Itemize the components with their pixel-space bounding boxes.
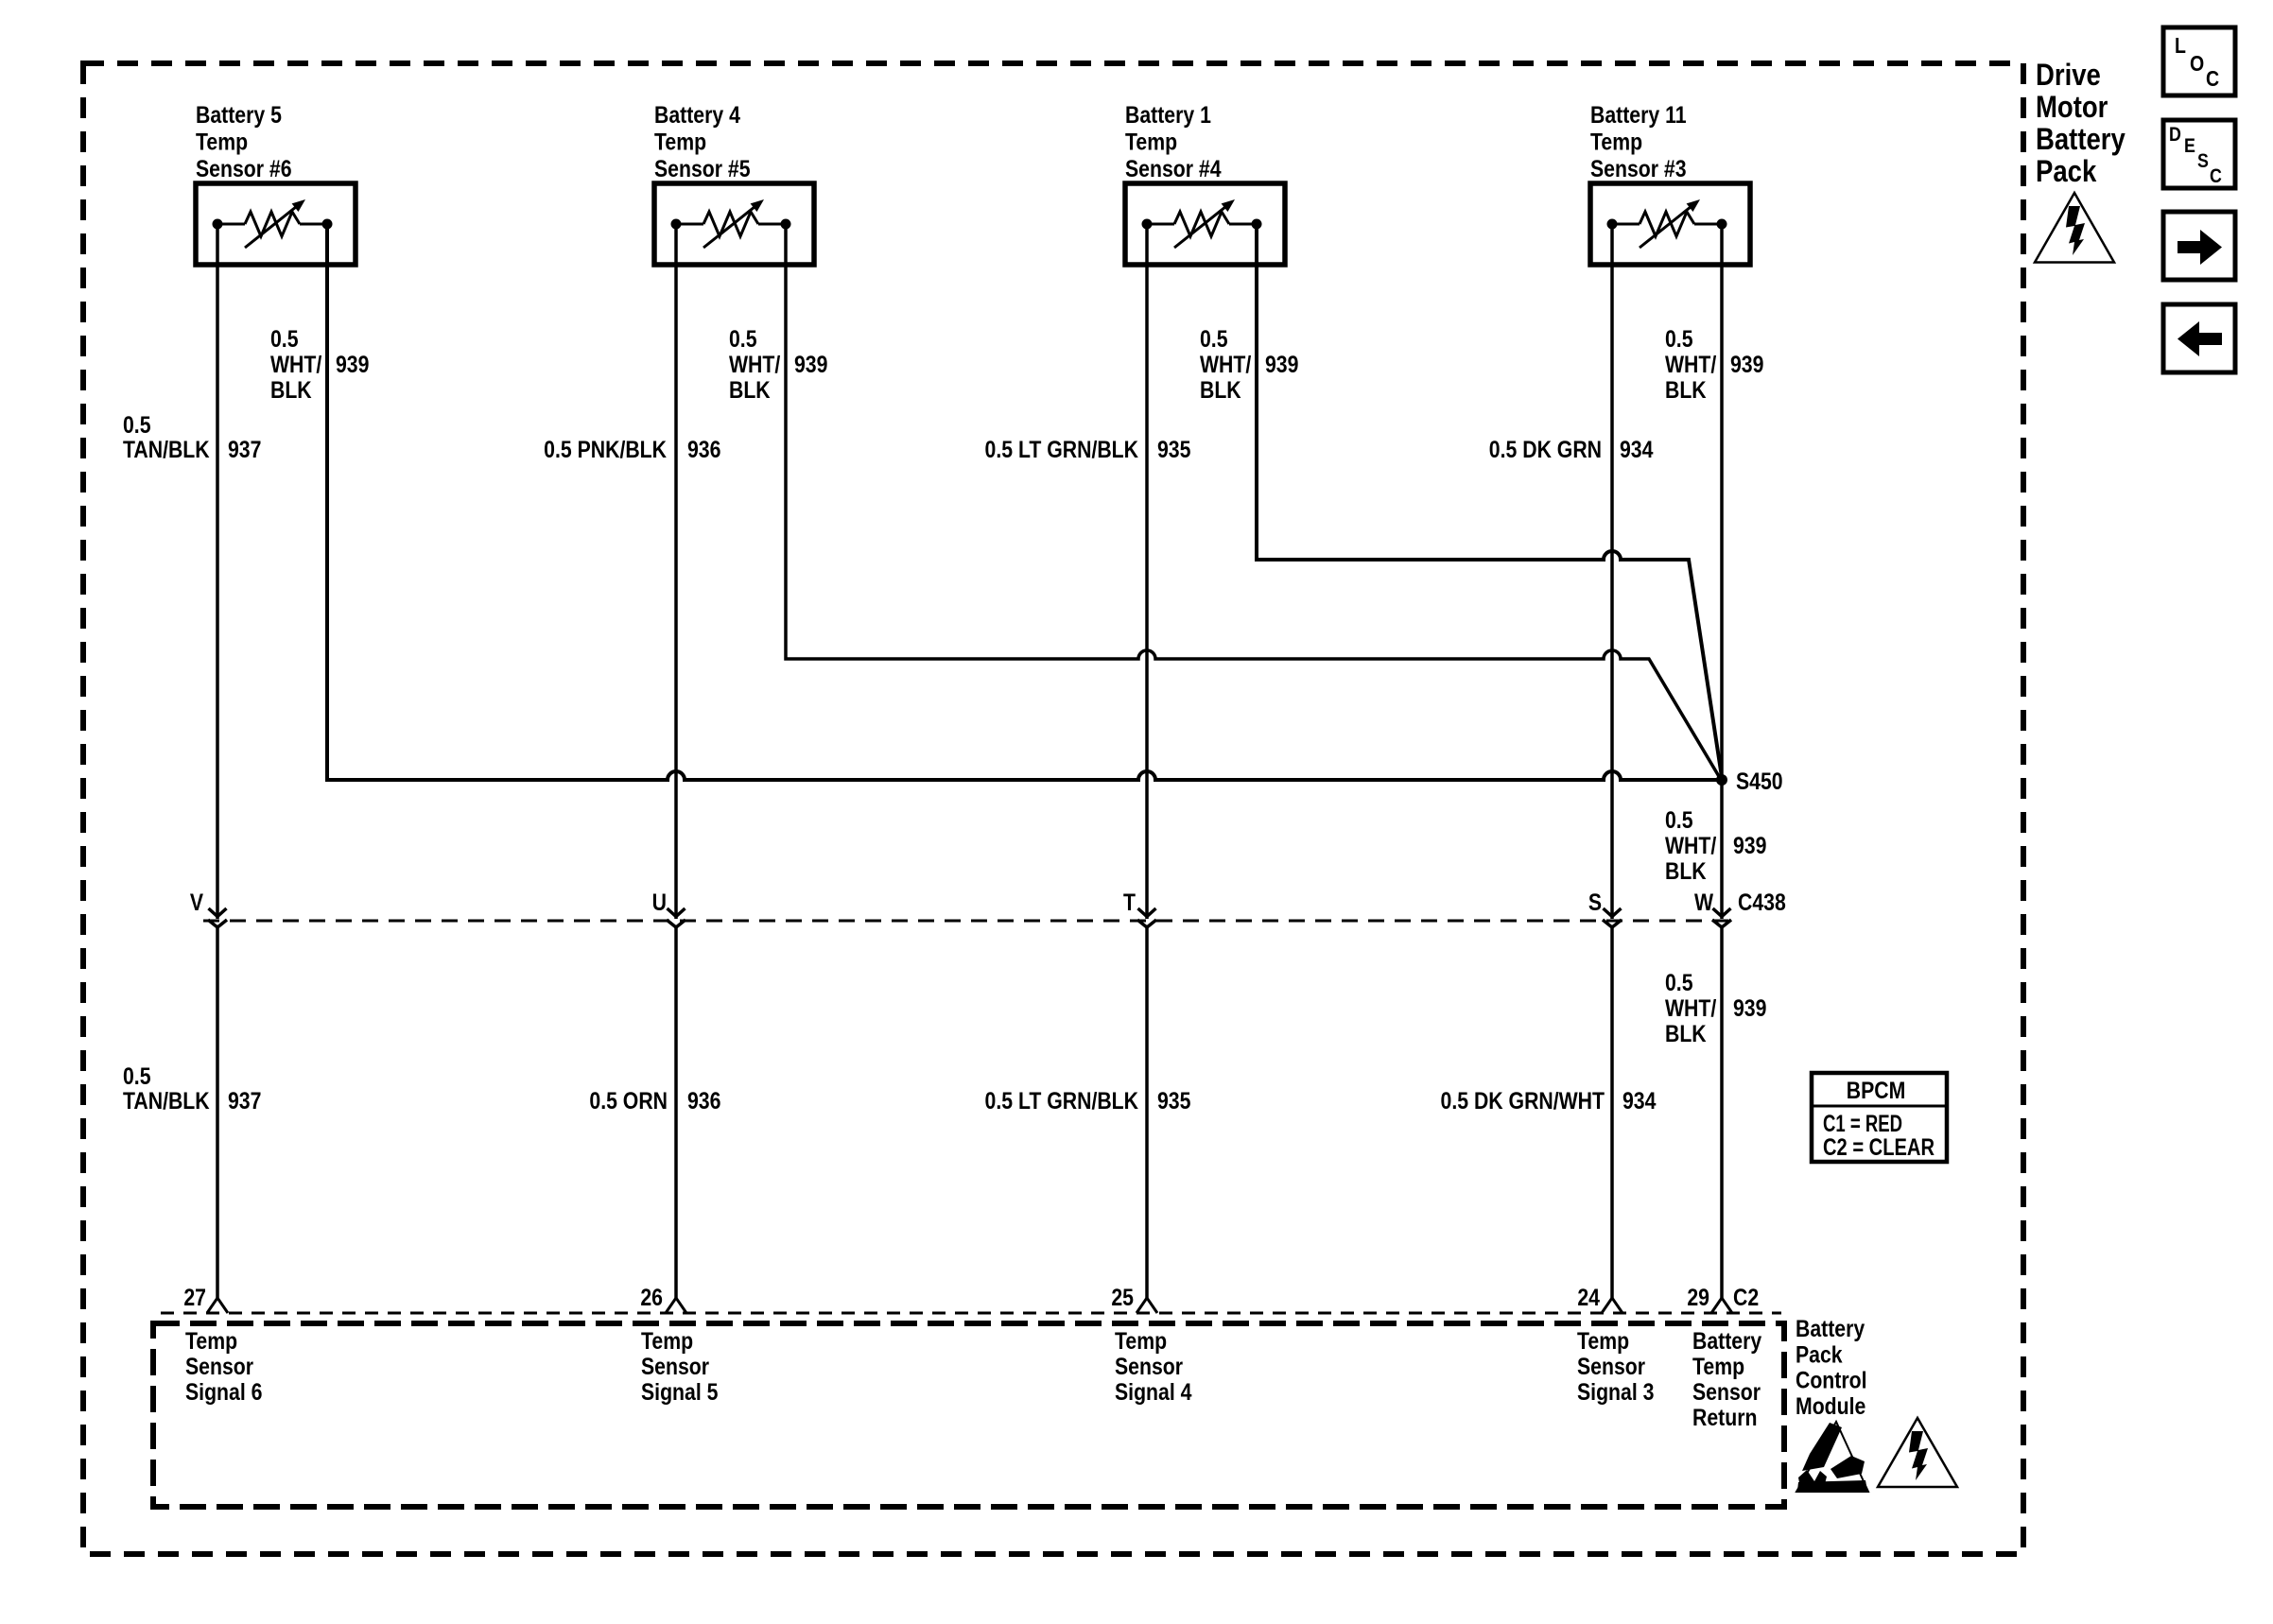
svg-text:936: 936 [687,436,721,462]
svg-text:Sensor #3: Sensor #3 [1590,155,1687,181]
svg-text:0.5 ORN: 0.5 ORN [589,1087,668,1114]
svg-text:25: 25 [1111,1284,1134,1310]
svg-text:Pack: Pack [2036,155,2097,188]
svg-text:BLK: BLK [1665,1020,1707,1046]
svg-text:BLK: BLK [1665,376,1707,403]
svg-text:C: C [2206,67,2219,92]
svg-text:Return: Return [1692,1404,1757,1430]
svg-text:D: D [2169,124,2181,147]
svg-text:WHT/: WHT/ [729,351,781,377]
svg-text:C2: C2 [1733,1284,1759,1310]
svg-text:939: 939 [1730,351,1764,377]
svg-text:Sensor #5: Sensor #5 [654,155,751,181]
svg-text:BLK: BLK [1200,376,1241,403]
svg-text:Temp: Temp [196,129,248,155]
svg-text:0.5: 0.5 [1200,325,1228,352]
svg-text:Sensor #6: Sensor #6 [196,155,292,181]
svg-text:WHT/: WHT/ [1200,351,1252,377]
svg-text:WHT/: WHT/ [1665,832,1717,858]
svg-text:Sensor: Sensor [185,1353,253,1379]
svg-text:0.5: 0.5 [1665,806,1693,833]
svg-text:Module: Module [1796,1392,1865,1419]
svg-text:0.5: 0.5 [1665,969,1693,995]
svg-text:E: E [2184,135,2195,158]
svg-text:S: S [2197,150,2209,173]
svg-text:Battery 11: Battery 11 [1590,101,1687,128]
svg-text:Temp: Temp [1577,1327,1629,1354]
svg-text:Battery: Battery [1692,1327,1761,1354]
svg-text:O: O [2190,52,2204,77]
svg-text:0.5: 0.5 [729,325,757,352]
svg-text:27: 27 [183,1284,206,1310]
svg-text:24: 24 [1577,1284,1600,1310]
svg-text:934: 934 [1622,1087,1657,1114]
svg-text:937: 937 [228,436,261,462]
svg-text:0.5: 0.5 [123,411,151,438]
svg-text:Battery: Battery [1796,1315,1865,1341]
svg-text:S450: S450 [1736,768,1783,794]
svg-text:0.5 LT GRN/BLK: 0.5 LT GRN/BLK [985,436,1139,462]
svg-text:Battery 4: Battery 4 [654,101,740,128]
svg-text:939: 939 [794,351,828,377]
svg-text:Temp: Temp [1692,1353,1744,1379]
svg-text:0.5: 0.5 [1665,325,1693,352]
svg-text:939: 939 [336,351,370,377]
svg-text:0.5 DK GRN/WHT: 0.5 DK GRN/WHT [1441,1087,1605,1114]
svg-text:0.5: 0.5 [270,325,299,352]
svg-text:939: 939 [1733,994,1767,1021]
svg-text:Temp: Temp [1590,129,1642,155]
svg-text:BPCM: BPCM [1847,1077,1906,1103]
svg-text:Pack: Pack [1796,1341,1843,1368]
svg-text:WHT/: WHT/ [270,351,322,377]
svg-text:Signal 3: Signal 3 [1577,1378,1655,1405]
svg-text:Signal 5: Signal 5 [641,1378,719,1405]
svg-text:Drive: Drive [2036,59,2101,92]
svg-text:WHT/: WHT/ [1665,994,1717,1021]
svg-text:Battery 1: Battery 1 [1125,101,1211,128]
svg-text:Temp: Temp [1125,129,1177,155]
svg-text:935: 935 [1157,1087,1191,1114]
svg-text:934: 934 [1620,436,1654,462]
svg-text:Temp: Temp [1115,1327,1167,1354]
svg-text:U: U [652,889,667,915]
svg-text:935: 935 [1157,436,1191,462]
svg-text:Sensor: Sensor [1577,1353,1645,1379]
svg-text:BLK: BLK [729,376,771,403]
svg-text:0.5 DK GRN: 0.5 DK GRN [1489,436,1602,462]
svg-text:937: 937 [228,1087,261,1114]
svg-text:939: 939 [1265,351,1299,377]
svg-text:W: W [1694,889,1713,915]
svg-text:T: T [1123,889,1136,915]
svg-text:V: V [190,889,204,915]
svg-text:29: 29 [1687,1284,1709,1310]
svg-text:26: 26 [640,1284,663,1310]
svg-text:Temp: Temp [641,1327,693,1354]
svg-text:Battery: Battery [2036,123,2126,156]
svg-text:Signal 6: Signal 6 [185,1378,263,1405]
svg-text:Sensor #4: Sensor #4 [1125,155,1222,181]
svg-text:WHT/: WHT/ [1665,351,1717,377]
svg-text:C2 = CLEAR: C2 = CLEAR [1823,1134,1935,1161]
svg-text:S: S [1588,889,1602,915]
svg-text:BLK: BLK [1665,857,1707,884]
svg-text:0.5 LT GRN/BLK: 0.5 LT GRN/BLK [985,1087,1139,1114]
svg-text:Temp: Temp [185,1327,237,1354]
svg-text:Sensor: Sensor [1692,1378,1761,1405]
svg-text:L: L [2175,34,2186,59]
svg-text:Signal 4: Signal 4 [1115,1378,1192,1405]
svg-text:TAN/BLK: TAN/BLK [123,1087,210,1114]
svg-text:Temp: Temp [654,129,706,155]
svg-text:936: 936 [687,1087,721,1114]
svg-text:0.5 PNK/BLK: 0.5 PNK/BLK [544,436,667,462]
svg-text:TAN/BLK: TAN/BLK [123,436,210,462]
svg-text:C: C [2210,165,2222,188]
svg-text:Battery 5: Battery 5 [196,101,282,128]
svg-text:C1 = RED: C1 = RED [1823,1111,1902,1137]
svg-text:C438: C438 [1738,889,1786,915]
svg-text:Control: Control [1796,1367,1867,1393]
svg-text:Motor: Motor [2036,91,2108,124]
svg-text:Sensor: Sensor [1115,1353,1183,1379]
svg-text:BLK: BLK [270,376,312,403]
svg-text:0.5: 0.5 [123,1063,151,1089]
svg-text:939: 939 [1733,832,1767,858]
svg-text:Sensor: Sensor [641,1353,709,1379]
